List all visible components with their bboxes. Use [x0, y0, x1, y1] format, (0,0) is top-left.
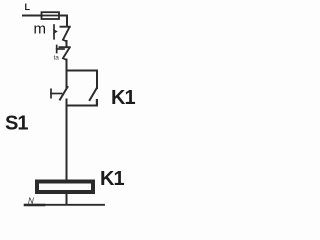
wire [66, 106, 68, 181]
contact K1 auxiliary holding NO [90, 88, 97, 106]
fuse F1 [42, 12, 60, 19]
label K1 (holding contact) [111, 87, 135, 109]
label K1 (coil) [100, 168, 124, 190]
wire [66, 71, 68, 88]
svg-text:K1: K1 [111, 87, 135, 109]
svg-text:m: m [34, 21, 47, 38]
wire [66, 193, 68, 205]
wire branch to holding contact [67, 71, 98, 89]
actuator of stop pushbutton [57, 46, 64, 53]
label S1 [5, 113, 28, 135]
wire bottom of parallel branch [67, 100, 98, 106]
svg-text:S1: S1 [5, 113, 28, 135]
svg-text:ta: ta [54, 55, 60, 62]
svg-text:L: L [25, 2, 31, 12]
switch S1 start pushbutton NO [60, 87, 68, 106]
thermal trip chevron of m-contact [53, 25, 58, 39]
wire [59, 16, 67, 26]
wire [66, 41, 68, 46]
svg-text:N: N [28, 197, 34, 206]
node L [25, 2, 31, 12]
actuator of S1 [51, 89, 62, 97]
svg-text:K1: K1 [100, 168, 124, 190]
label ta [54, 55, 60, 62]
wire [23, 15, 42, 17]
wire [66, 60, 68, 71]
label N [28, 197, 34, 206]
contact F2 thermal overload NC (m) [61, 27, 70, 42]
coil K1 [37, 182, 93, 193]
label m [34, 21, 47, 38]
node N rail [25, 204, 104, 206]
contact S0 stop pushbutton NC (ta) [60, 47, 70, 60]
